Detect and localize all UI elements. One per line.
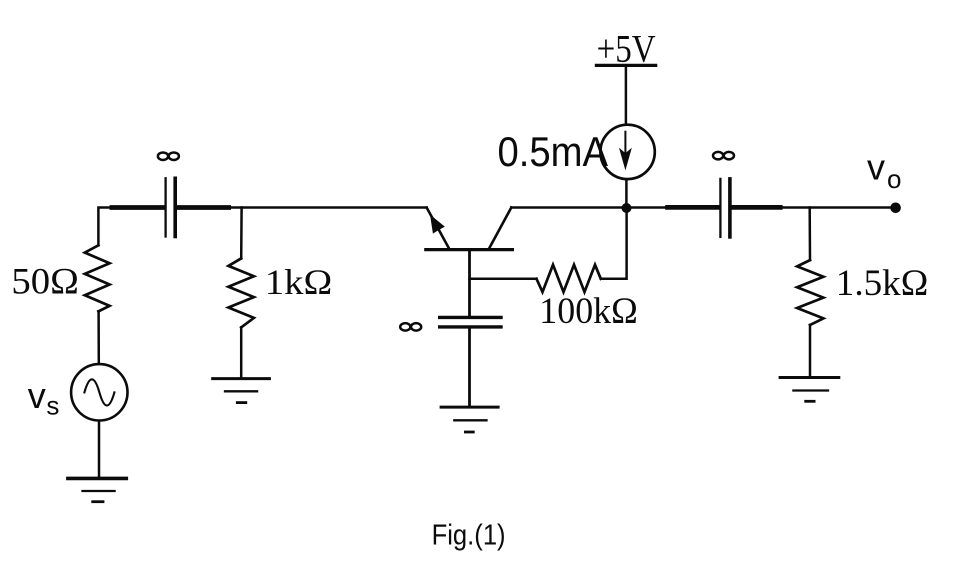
capacitor Cin left plate [164,178,166,236]
label infinity (bypass cap) [400,323,421,331]
capacitor Cin right plate [173,178,177,236]
transistor Q1 collector diagonal [489,208,512,250]
capacitor Cout thick lead right [731,205,780,210]
label infinity (output cap) [713,152,734,160]
svg-text:100kΩ: 100kΩ [539,291,638,332]
wire: 1k to ground [240,327,243,378]
label infinity (input cap) [158,152,179,160]
capacitor Cin thick lead left [112,205,164,210]
wire: junction down to 1k resistor [240,208,243,259]
wire: +5V to current source [625,67,628,124]
capacitor Cout left plate [719,179,721,237]
capacitor Cin thick lead right [177,205,229,210]
capacitor Cb bottom plate [440,325,501,328]
svg-text:Fig.(1): Fig.(1) [432,520,506,552]
wire: left source branch top corner to cap [98,208,113,246]
wire: 100k right end to node vertical [601,208,627,279]
current source 0.5mA circle [600,125,654,179]
resistor 50ohm [85,245,110,311]
resistor 1.5k [797,260,823,325]
power +5V supply bar [596,64,655,67]
capacitor Cout right plate [728,179,732,237]
ground (1k) [213,377,270,380]
wire: collector to node [511,206,627,209]
svg-text:s: s [46,391,59,421]
svg-text:1kΩ: 1kΩ [265,262,333,302]
output terminal dot vo [890,203,901,214]
wire: 50ohm to source circle [97,311,100,363]
capacitor Cb (bypass) top plate [440,316,501,319]
wire: node to output cap [626,206,668,209]
transistor Q1 emitter diagonal [427,208,450,250]
svg-text:v: v [28,375,46,416]
svg-text:0.5mA: 0.5mA [498,128,609,175]
wire: base junction to 100k resistor [470,278,537,281]
wire: bypass cap to ground [468,328,471,407]
wire: cap to output terminal [780,206,895,209]
wire: base vertical down to bypass cap [468,251,471,318]
svg-text:+5V: +5V [597,27,656,70]
ground (vs) [68,477,126,481]
resistor 1k [228,258,254,327]
transistor Q1 base bar [426,248,513,251]
svg-text:1.5kΩ: 1.5kΩ [836,263,929,304]
voltage source vs circle [71,364,127,420]
wire: source to ground [98,422,101,478]
transistor Q1 emitter arrowhead [431,216,444,233]
voltage source sine wave [84,379,114,405]
ground (1.5k) [780,376,839,379]
ground (bypass cap) [441,406,498,409]
svg-text:50Ω: 50Ω [11,262,79,303]
wire: cap to transistor emitter [229,206,427,209]
wire: current source to node [625,180,628,208]
svg-text:v: v [867,146,885,187]
wire: junction down to 1.5k [808,208,811,261]
resistor 100k (horizontal) [537,265,601,292]
current source arrow shaft [624,132,626,155]
wire: 1.5k to ground [809,325,812,377]
node output junction dot [622,203,632,213]
current source arrowhead [620,149,631,168]
capacitor Cout thick lead left [668,205,719,210]
svg-text:o: o [887,164,901,194]
